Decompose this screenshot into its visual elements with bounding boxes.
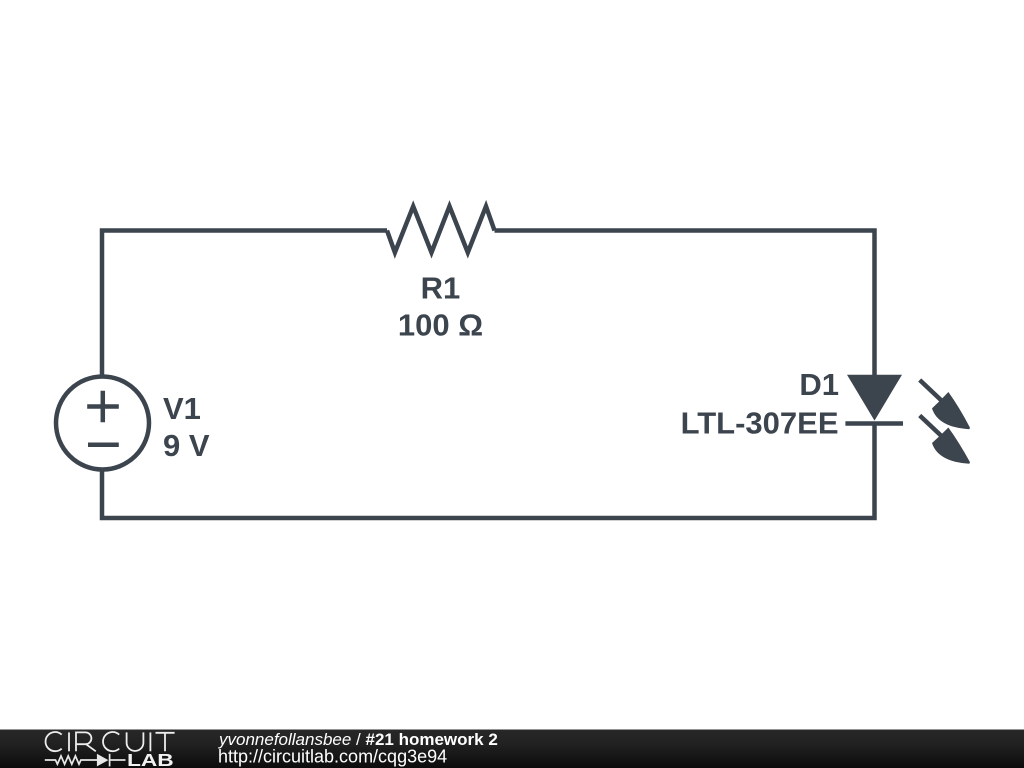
wire from R1 right terminal to D1 anode: [495, 231, 875, 378]
svg-text:LTL-307EE: LTL-307EE: [681, 406, 839, 441]
svg-text:D1: D1: [799, 367, 839, 402]
svg-text:V1: V1: [163, 391, 201, 426]
svg-text:9 V: 9 V: [163, 428, 210, 463]
svg-text:100 Ω: 100 Ω: [398, 308, 483, 343]
svg-text:http://circuitlab.com/cqg3e94: http://circuitlab.com/cqg3e94: [218, 747, 447, 767]
footer bar: [0, 730, 1024, 768]
wire from V1 + terminal to R1 left terminal: [102, 231, 387, 377]
voltage source V1: [56, 377, 149, 470]
resistor R1: [387, 206, 495, 252]
svg-text:LAB: LAB: [127, 751, 174, 768]
wire from D1 cathode to V1 - terminal: [102, 424, 875, 519]
CircuitLab logo: mini schematic: [45, 754, 126, 767]
LED D1: [845, 375, 970, 464]
svg-text:R1: R1: [421, 271, 461, 306]
CircuitLab logo: CIRCUIT wordmark: [46, 732, 175, 751]
